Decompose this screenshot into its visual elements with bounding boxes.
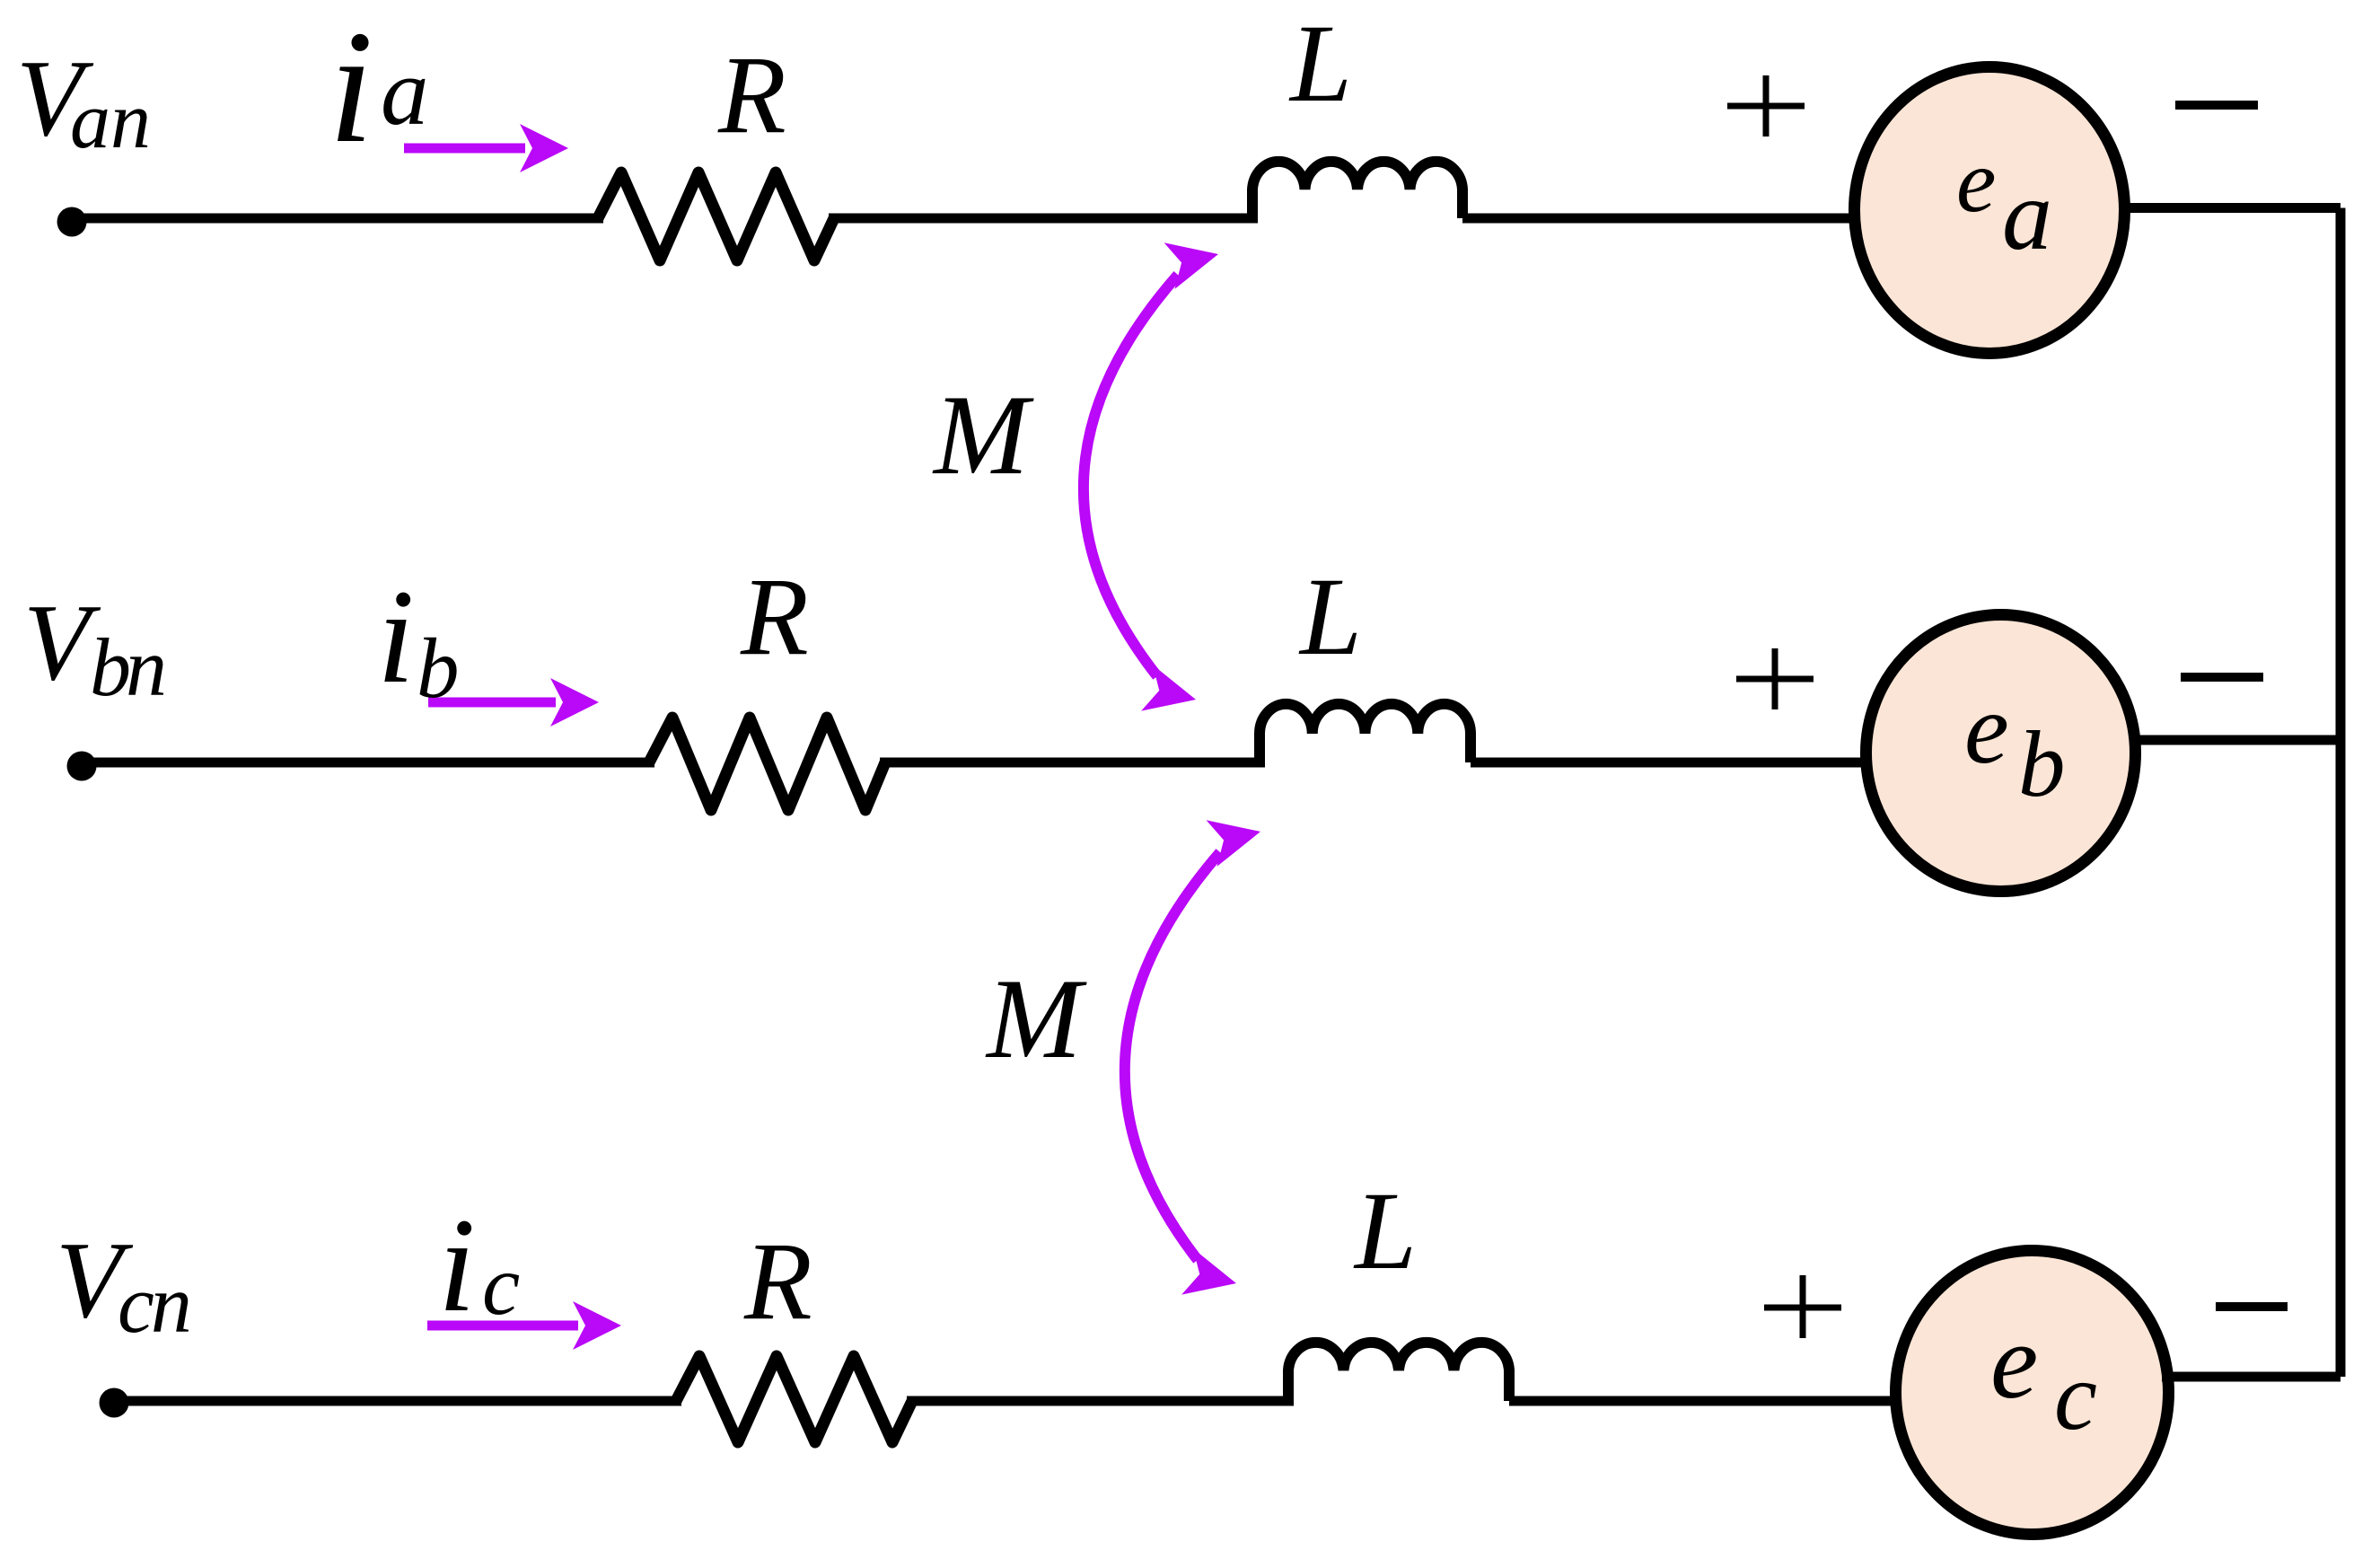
svg-text:i: i [329,0,373,176]
svg-text:bn: bn [90,621,164,713]
svg-text:a: a [381,40,429,145]
svg-text:M: M [985,956,1087,1082]
svg-text:R: R [717,33,786,156]
svg-text:M: M [932,373,1034,498]
svg-text:c: c [482,1238,520,1333]
svg-text:cn: cn [118,1258,189,1350]
svg-text:an: an [70,76,151,165]
svg-text:e: e [1956,131,1996,231]
svg-text:L: L [1298,555,1362,678]
svg-text:i: i [438,1191,476,1340]
svg-text:b: b [417,621,460,716]
svg-text:R: R [740,555,809,678]
svg-text:e: e [1990,1301,2038,1421]
svg-text:c: c [2054,1343,2097,1450]
svg-text:b: b [2018,711,2066,816]
svg-text:a: a [2002,160,2052,271]
svg-text:L: L [1353,1169,1417,1292]
svg-text:R: R [743,1220,812,1343]
svg-text:L: L [1288,2,1352,125]
svg-text:i: i [377,562,415,711]
svg-text:e: e [1964,674,2009,785]
